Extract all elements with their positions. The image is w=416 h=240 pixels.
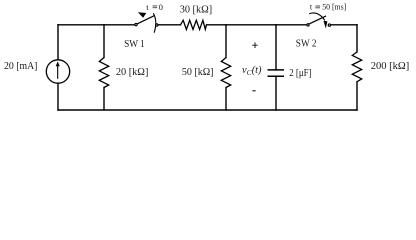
resistor R3 50k body [221, 58, 230, 88]
svg-text:200 [kΩ]: 200 [kΩ] [371, 60, 410, 72]
wire R1 bottom lead [103, 88, 105, 111]
label vC(t) [242, 65, 262, 77]
wire left branch upper [57, 25, 59, 60]
wire SW2 to top-right corner [331, 24, 357, 26]
svg-text:0: 0 [159, 3, 163, 12]
label 20 [mA] [4, 60, 37, 72]
label SW 2 [296, 39, 317, 50]
label 200 [kOhm] [371, 60, 410, 72]
resistor R4 200k body [352, 52, 361, 82]
capacitor C1 bottom plate [268, 75, 285, 77]
wire R1 top lead [103, 25, 105, 58]
svg-text:50 [ms]: 50 [ms] [322, 2, 346, 12]
wire R3 top lead [225, 25, 227, 58]
wire left branch lower [57, 83, 59, 110]
switch SW1 arm [137, 16, 154, 24]
switch SW2 arm [309, 16, 326, 24]
wire R3 bottom lead [225, 88, 227, 111]
svg-text:30 [kΩ]: 30 [kΩ] [180, 4, 213, 16]
resistor R2 30k body [181, 20, 207, 29]
label 30 [kOhm] [180, 4, 213, 16]
wire C1 bottom lead [275, 76, 277, 110]
wire C1 top lead [275, 25, 277, 70]
svg-text:SW 1: SW 1 [124, 39, 145, 50]
wire R2 to SW2 (node B with junctions) [207, 24, 307, 26]
label 2 [uF] [289, 67, 311, 79]
wire top-left horizontal (node A: source to SW1) [58, 24, 135, 26]
label 20 [kOhm] [116, 66, 148, 78]
svg-text:SW 2: SW 2 [296, 39, 317, 50]
svg-text:t: t [310, 3, 313, 12]
switch SW1 opening arrow [138, 12, 156, 32]
svg-text:20 [mA]: 20 [mA] [4, 60, 37, 72]
label t = 0 [146, 3, 163, 12]
wire SW1 to R2 [158, 24, 180, 26]
switch SW1 right contact [156, 24, 158, 26]
wire R4 bottom lead [356, 82, 358, 110]
svg-text:50 [kΩ]: 50 [kΩ] [182, 66, 214, 78]
switch SW2 closing arrow [309, 13, 327, 29]
switch SW1 left contact [135, 23, 137, 25]
svg-text:vC(t): vC(t) [242, 65, 262, 77]
switch SW2 right contact [328, 24, 330, 26]
label 50 [kOhm] [182, 66, 214, 78]
current source I1 circle [46, 60, 69, 83]
wire R4 top lead [356, 25, 358, 52]
svg-text:2 [μF]: 2 [μF] [289, 67, 311, 79]
switch SW2 left contact [307, 24, 309, 26]
svg-text:t: t [146, 3, 149, 12]
current source I1 arrow [56, 62, 60, 79]
resistor R1 20k body [99, 58, 108, 88]
label t = 50 [ms] [310, 2, 346, 12]
svg-text:20 [kΩ]: 20 [kΩ] [116, 66, 148, 78]
wire bottom (ground rail) [58, 109, 357, 111]
label + polarity [252, 42, 257, 48]
label - polarity [252, 90, 255, 92]
label SW 1 [124, 39, 145, 50]
capacitor C1 top plate [268, 69, 285, 71]
